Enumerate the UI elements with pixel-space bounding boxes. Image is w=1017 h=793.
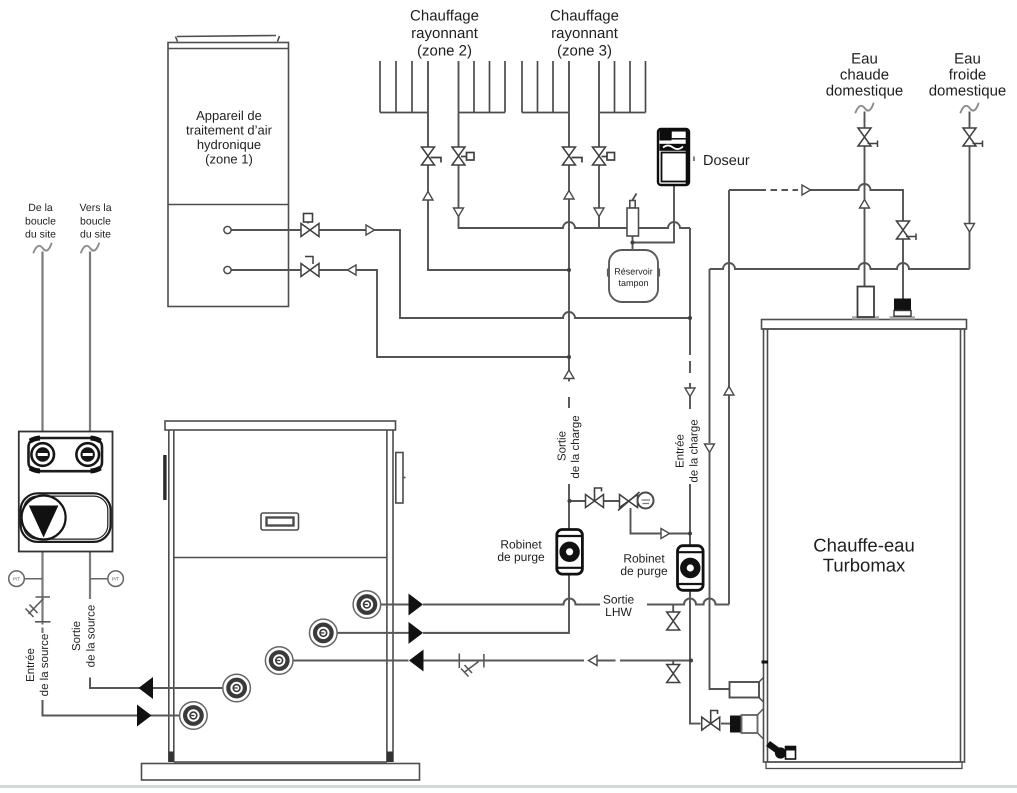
svg-text:chaude: chaude (840, 67, 889, 84)
svg-text:LHW: LHW (605, 605, 632, 619)
svg-text:traitement d’air: traitement d’air (186, 123, 273, 138)
svg-text:du site: du site (25, 229, 56, 241)
svg-text:(zone 3): (zone 3) (557, 43, 612, 60)
svg-text:De la: De la (28, 202, 53, 214)
svg-text:Entrée: Entrée (675, 434, 687, 468)
svg-text:rayonnant: rayonnant (551, 25, 619, 42)
svg-text:de la charge: de la charge (570, 415, 582, 478)
svg-text:Réservoir: Réservoir (614, 267, 653, 277)
svg-text:de la charge: de la charge (689, 419, 701, 482)
svg-text:boucle: boucle (80, 216, 111, 228)
svg-text:de purge: de purge (620, 564, 668, 578)
svg-text:Chauffage: Chauffage (550, 8, 619, 25)
svg-text:de purge: de purge (497, 550, 545, 564)
svg-text:hydronique: hydronique (197, 137, 261, 152)
svg-text:Entrée: Entrée (25, 648, 37, 682)
svg-text:tampon: tampon (618, 278, 648, 288)
svg-text:Appareil de: Appareil de (196, 108, 262, 123)
svg-text:domestique: domestique (929, 83, 1007, 100)
svg-text:Chauffe-eau: Chauffe-eau (813, 535, 915, 556)
svg-text:de la source: de la source (39, 634, 51, 697)
svg-text:boucle: boucle (25, 216, 56, 228)
svg-text:Turbomax: Turbomax (823, 555, 906, 576)
svg-text:Chauffage: Chauffage (410, 8, 479, 25)
svg-text:rayonnant: rayonnant (411, 25, 479, 42)
svg-text:du site: du site (80, 229, 111, 241)
svg-text:(zone 2): (zone 2) (417, 43, 472, 60)
svg-text:Vers la: Vers la (79, 202, 111, 214)
svg-text:de la source: de la source (86, 605, 98, 668)
svg-text:Eau: Eau (954, 51, 981, 68)
svg-text:(zone 1): (zone 1) (205, 152, 253, 167)
svg-text:Eau: Eau (851, 51, 878, 68)
svg-text:domestique: domestique (826, 83, 904, 100)
svg-text:Doseur: Doseur (703, 153, 750, 169)
svg-text:Sortie: Sortie (557, 431, 569, 461)
svg-text:froide: froide (949, 67, 987, 84)
svg-text:Sortie: Sortie (71, 621, 83, 651)
